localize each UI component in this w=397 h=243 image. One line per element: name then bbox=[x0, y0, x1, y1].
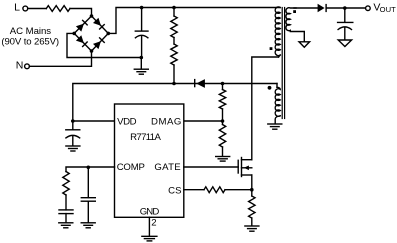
junction dot DMAG node bbox=[221, 119, 225, 123]
svg-text:2: 2 bbox=[151, 218, 156, 229]
T1 primary polarity dot bbox=[270, 47, 273, 50]
bridge diode top-right (anode top vertex, cathode right) bbox=[93, 18, 105, 30]
wire GND pin stem bbox=[148, 217, 150, 236]
ground G4 (aux) bbox=[268, 123, 282, 125]
junction dot R3/VDD line bbox=[172, 82, 176, 86]
diode D5 (output rectifier) bbox=[318, 4, 327, 13]
wire COMP pin bbox=[66, 167, 115, 172]
ground G2 (VDD cap) bbox=[66, 145, 80, 147]
svg-text:(90V to 265V): (90V to 265V) bbox=[1, 36, 59, 47]
wire L to resistor bbox=[28, 8, 47, 10]
ground triangle secondary return bbox=[299, 42, 310, 47]
resistor R6 (CS filter) bbox=[204, 187, 225, 193]
capacitor C1 plates bbox=[135, 30, 148, 32]
wire bridge left vertex to primary ground node bbox=[67, 33, 141, 57]
junction dot VDD cap tap bbox=[71, 119, 75, 123]
capacitor C1 (bulk) top stem bbox=[141, 8, 143, 31]
svg-text:GND: GND bbox=[140, 206, 160, 217]
wire CS pin bbox=[184, 189, 204, 191]
terminal L bbox=[23, 6, 28, 11]
wire R1 to bridge top bbox=[70, 9, 92, 17]
resistor R7 (sense) bbox=[249, 196, 255, 218]
ground G5 (IC GND) bbox=[142, 235, 157, 237]
transistor Q1 N-MOSFET bbox=[237, 160, 239, 173]
ground triangle output bbox=[338, 40, 351, 47]
junction dot output cap tap bbox=[343, 6, 347, 10]
junction dot COMP/C5 bbox=[87, 166, 91, 170]
junction dot bridge left bbox=[72, 32, 76, 36]
diode D4 (aux rectifier, points left) bbox=[194, 79, 205, 88]
svg-text:VDD: VDD bbox=[117, 116, 136, 127]
capacitor C2 (VDD) bbox=[72, 121, 74, 129]
wire R2 to R3 bbox=[173, 38, 175, 45]
ground G8 (sense) bbox=[245, 225, 259, 227]
wire VDD line (aux supply rail) bbox=[73, 84, 277, 122]
capacitor C4 (comp series) bbox=[65, 195, 67, 210]
junction dot bridge bottom bbox=[90, 49, 94, 53]
svg-text:R7711A: R7711A bbox=[130, 132, 161, 143]
wire primary bottom to drain vertical bbox=[279, 55, 281, 57]
svg-text:COMP: COMP bbox=[117, 162, 145, 173]
wire R6 to CS node bbox=[225, 189, 252, 191]
svg-text:OUT: OUT bbox=[380, 5, 397, 14]
terminal N bbox=[25, 64, 30, 69]
wire secondary top to D5 bbox=[294, 7, 318, 9]
wire R3 to VDD line bbox=[173, 65, 175, 84]
wire VDD pin bbox=[73, 120, 115, 122]
resistor R8 (comp) bbox=[63, 172, 69, 196]
wire Q1 source to CS node bbox=[251, 175, 253, 196]
resistor R2 bbox=[171, 16, 177, 38]
capacitor C5 (comp parallel) bbox=[87, 167, 89, 197]
transformer T1 core bbox=[281, 8, 283, 119]
svg-text:DMAG: DMAG bbox=[151, 116, 181, 127]
capacitor C1 bottom stem bbox=[141, 36, 143, 58]
junction dot C1/ground bbox=[140, 56, 144, 60]
transformer T1 secondary winding bbox=[286, 8, 304, 42]
capacitor C3 (output) bbox=[344, 8, 346, 22]
T1 aux polarity dot bbox=[268, 86, 272, 90]
ground G3 (DMAG divider) bbox=[216, 156, 230, 158]
svg-text:CS: CS bbox=[168, 185, 181, 196]
ground G6 (comp series) bbox=[59, 222, 73, 224]
terminal VOUT circle bbox=[366, 6, 371, 11]
wire D5 to VOUT terminal bbox=[327, 7, 366, 9]
junction dot rail/C1 bbox=[140, 6, 144, 10]
wire N to bridge bottom bbox=[29, 51, 91, 66]
bridge diode bottom-right (anode bottom vertex, cathode right) bbox=[93, 37, 105, 49]
resistor R3 (startup lower) bbox=[171, 44, 177, 65]
ground G1 (primary bulk) bbox=[140, 58, 142, 69]
Q1 body arrow bbox=[244, 166, 249, 171]
junction dot CS node bbox=[250, 188, 254, 192]
transformer T1 primary winding bbox=[275, 7, 280, 56]
bridge diode bottom-left (anode left vertex, cathode bottom) bbox=[76, 35, 88, 47]
resistor R2 (startup upper) stem bbox=[173, 8, 175, 17]
junction dot bridge right bbox=[107, 32, 111, 36]
wire bridge right vertex to top rail bbox=[108, 8, 280, 34]
resistor R5 (DMAG lower) bbox=[222, 121, 224, 125]
ground G7 (comp parallel) bbox=[81, 222, 95, 224]
wire DMAG pin bbox=[184, 120, 223, 122]
junction dot VDD line/R4 bbox=[221, 82, 225, 86]
bridge rectifier BR1 outline bbox=[74, 16, 108, 51]
junction dot bridge top bbox=[90, 14, 94, 18]
transformer T1 aux winding bbox=[276, 84, 278, 88]
wire Q1 drain to primary bbox=[252, 57, 279, 160]
resistor R4 (DMAG upper) bbox=[222, 84, 224, 90]
svg-text:L: L bbox=[14, 1, 20, 13]
resistor R1 (fusible input) bbox=[46, 6, 70, 12]
wire GATE pin to Q1 gate bbox=[184, 166, 238, 168]
T1 secondary polarity dot bbox=[293, 10, 296, 13]
svg-text:N: N bbox=[16, 59, 24, 71]
svg-text:GATE: GATE bbox=[154, 162, 180, 173]
wire aux bottom to ground bbox=[275, 116, 280, 124]
bridge diode top-left (anode left vertex, cathode top) bbox=[76, 19, 88, 31]
junction dot rail/R2 bbox=[172, 6, 176, 10]
op IC U1 R7711A box bbox=[115, 104, 184, 217]
